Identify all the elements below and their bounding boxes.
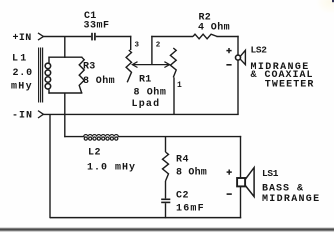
resistor R1 right section zigzag (terminal 1)	[170, 48, 176, 77]
resistor R3 zigzag	[79, 57, 84, 93]
window edge gray band at bottom	[0, 227, 334, 230]
wire: low-pass feed corner to L2	[64, 136, 84, 138]
inductor L1 winding loops	[45, 63, 51, 69]
speaker LS1 driver square	[237, 178, 245, 186]
wire: parallel block left edge below coil	[48, 90, 50, 94]
resistor R4 zigzag	[163, 152, 169, 181]
svg-text:R1: R1	[139, 74, 152, 85]
wire: LS2 branch upper	[237, 36, 239, 55]
svg-text:LS1: LS1	[262, 168, 279, 179]
wire: top rail left segment from +IN to C1	[43, 36, 92, 38]
wire: LS1 branch upper	[240, 136, 242, 178]
wire: -IN input arrow	[38, 111, 43, 118]
svg-text:TWEETER: TWEETER	[265, 80, 315, 91]
Lpad wiper double arrow	[133, 64, 169, 66]
inductor L1 core lines	[38, 48, 40, 103]
svg-text:R3: R3	[83, 62, 96, 73]
wire: C2 to bottom rail	[165, 203, 167, 218]
wire: corner drop to Lpad terminal 3	[130, 36, 132, 50]
wire: parallel block bottom side	[48, 92, 82, 94]
wire: -IN rail	[43, 113, 239, 115]
LS1 plus mark	[227, 171, 232, 173]
resistor R2 zigzag	[193, 34, 217, 39]
svg-text:1: 1	[177, 81, 182, 90]
LS2 minus mark	[226, 64, 231, 66]
wire: L2 to LS1 corner	[118, 136, 242, 138]
svg-text:mHy: mHy	[11, 81, 33, 92]
wire: R2 to LS2 corner	[217, 36, 239, 38]
svg-text:C2: C2	[176, 190, 189, 201]
wire: LS2 branch lower to -IN rail	[237, 60, 239, 114]
svg-text:L2: L2	[88, 148, 101, 159]
svg-text:L1: L1	[12, 54, 28, 65]
capacitor C2 plates	[161, 198, 170, 200]
wire: R4 to C2 lead	[165, 181, 167, 198]
wire: parallel block top side	[48, 56, 82, 58]
speaker LS1 cone	[245, 168, 254, 197]
speaker LS2 driver circle	[236, 55, 241, 60]
svg-text:+IN: +IN	[13, 33, 32, 44]
svg-text:1.0 mHy: 1.0 mHy	[87, 162, 136, 173]
inductor L2 winding loops	[84, 135, 119, 137]
svg-text:2: 2	[156, 41, 161, 49]
svg-text:LS2: LS2	[251, 45, 268, 56]
svg-text:MIDRANGE: MIDRANGE	[262, 194, 320, 205]
scan artifact top-right corner	[0, 0, 1, 1]
wire: drop from block through -IN rail to low-pass corner	[64, 93, 66, 137]
wire: terminal 1 drop to -IN rail	[173, 77, 175, 114]
svg-text:Lpad: Lpad	[132, 98, 161, 110]
LS1 minus mark	[227, 193, 232, 195]
wire: wiper line corner to R2	[151, 36, 153, 65]
svg-text:8 Ohm: 8 Ohm	[176, 167, 207, 179]
wire: junction drop from top rail into L1/R3 parallel block	[64, 37, 66, 58]
wire: +IN input arrow	[38, 33, 43, 40]
wire: bottom rail	[50, 217, 241, 219]
wire: LS1 branch lower	[240, 187, 242, 219]
wire: left return drop from -IN rail to bottom rail	[49, 114, 51, 218]
wire: R4 branch top lead	[165, 137, 167, 152]
svg-text:R4: R4	[176, 155, 189, 166]
capacitor C1 plates	[91, 33, 93, 41]
svg-text:-IN: -IN	[12, 110, 33, 121]
LS2 plus mark	[226, 50, 231, 52]
wire: top rail right segment from C1 to Lpad corner	[96, 36, 132, 38]
svg-text:33mF: 33mF	[84, 20, 110, 31]
svg-text:8 Ohm: 8 Ohm	[83, 75, 115, 87]
svg-text:3: 3	[135, 41, 140, 49]
svg-text:4 Ohm: 4 Ohm	[198, 21, 230, 33]
resistor R1 left section zigzag (terminal 3)	[126, 50, 131, 82]
wire: parallel block left edge above coil	[48, 57, 50, 64]
svg-text:8 Ohm: 8 Ohm	[134, 86, 167, 98]
svg-text:2.0: 2.0	[13, 68, 33, 79]
svg-text:16mF: 16mF	[176, 204, 205, 215]
speaker LS2 cone	[240, 50, 245, 64]
